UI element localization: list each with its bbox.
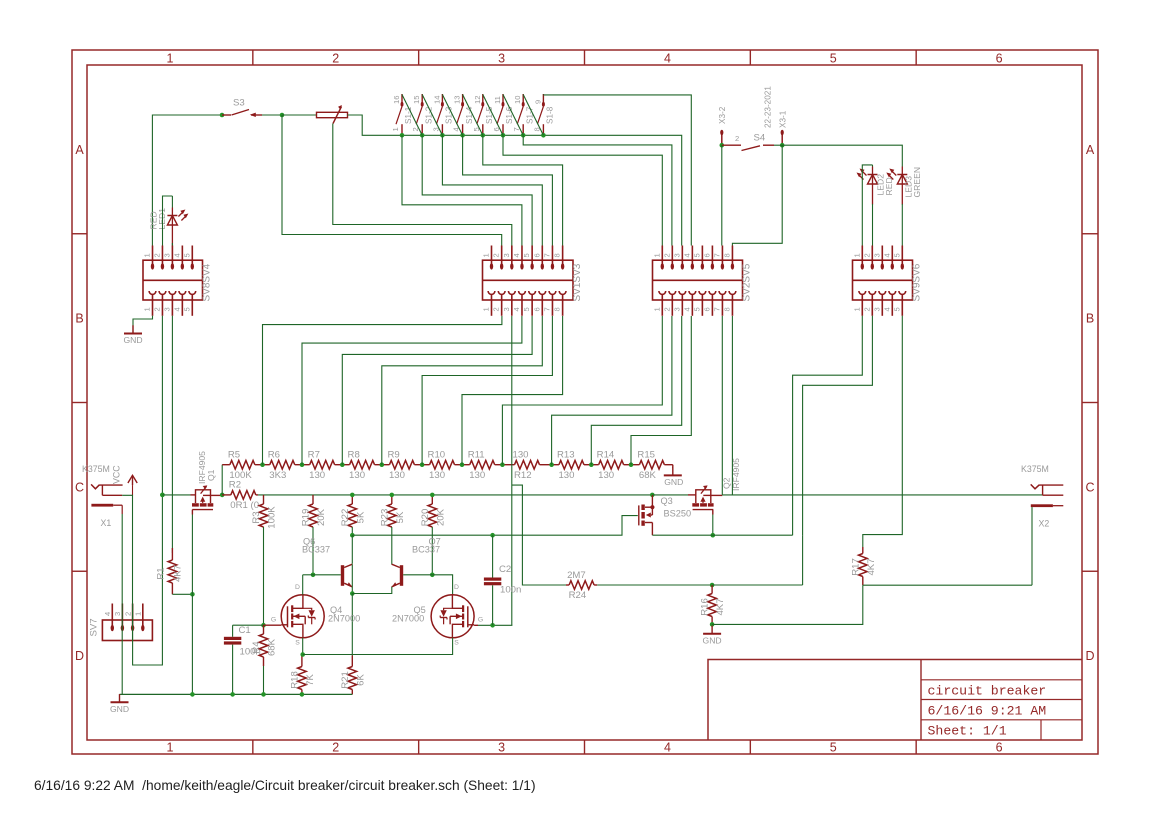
wire xyxy=(711,494,723,496)
wire xyxy=(901,204,903,246)
wire xyxy=(462,316,563,465)
svg-text:2: 2 xyxy=(735,134,739,143)
svg-text:1: 1 xyxy=(166,52,173,66)
wire xyxy=(793,316,863,535)
svg-text:R16: R16 xyxy=(700,598,711,616)
svg-text:8: 8 xyxy=(722,307,731,311)
svg-text:X2: X2 xyxy=(1039,519,1050,529)
svg-text:130: 130 xyxy=(349,470,365,481)
connector SV9 SV6 xyxy=(852,246,922,316)
wire xyxy=(591,316,681,465)
svg-text:GREEN: GREEN xyxy=(912,167,922,198)
wire xyxy=(712,585,863,624)
wire xyxy=(523,135,672,245)
resistor R22 xyxy=(340,495,367,527)
wire xyxy=(391,527,393,565)
svg-text:SV1SV3: SV1SV3 xyxy=(572,263,583,301)
svg-text:1: 1 xyxy=(391,127,400,131)
junction xyxy=(440,133,445,138)
svg-text:11: 11 xyxy=(493,96,502,104)
wire xyxy=(463,135,553,245)
svg-text:2: 2 xyxy=(492,307,501,311)
wire xyxy=(712,515,714,536)
svg-text:3: 3 xyxy=(113,612,122,616)
svg-text:1: 1 xyxy=(143,253,152,257)
wire xyxy=(712,584,803,586)
svg-text:4K7: 4K7 xyxy=(866,558,877,575)
svg-text:130: 130 xyxy=(429,470,445,481)
svg-text:S: S xyxy=(295,640,300,647)
svg-text:7: 7 xyxy=(712,307,721,311)
wire xyxy=(342,316,532,465)
svg-text:130: 130 xyxy=(469,470,485,481)
wire xyxy=(721,316,723,495)
wire xyxy=(688,494,696,496)
resistor R13 xyxy=(552,450,592,481)
transistor Q2 xyxy=(692,458,741,510)
transistor Q4 xyxy=(271,584,360,647)
svg-text:3K3: 3K3 xyxy=(269,470,286,481)
frame border xyxy=(72,50,1098,754)
wire xyxy=(597,584,712,586)
capacitor C1 xyxy=(224,625,261,658)
wire xyxy=(303,638,453,655)
wire xyxy=(352,516,638,536)
supply VCC xyxy=(112,465,138,496)
svg-text:R8: R8 xyxy=(348,450,360,461)
wire xyxy=(221,465,223,495)
svg-text:130: 130 xyxy=(309,470,325,481)
svg-text:6/16/16 9:22 AM /home/keith/e: 6/16/16 9:22 AM /home/keith/eagle/Circui… xyxy=(34,778,536,793)
svg-text:GND: GND xyxy=(664,477,683,487)
svg-text:S3: S3 xyxy=(233,98,245,109)
wire xyxy=(542,94,544,96)
junction xyxy=(430,493,435,498)
wire xyxy=(132,604,134,641)
wire xyxy=(282,115,502,246)
junction xyxy=(350,493,355,498)
wire xyxy=(782,145,902,166)
wire xyxy=(120,693,353,695)
LED LED1 xyxy=(149,208,189,246)
junction xyxy=(481,133,486,138)
svg-text:1: 1 xyxy=(482,253,491,257)
resistor R3 xyxy=(251,495,278,529)
junction xyxy=(190,592,195,597)
LED LED3 xyxy=(886,167,922,205)
svg-text:2: 2 xyxy=(123,612,132,616)
wire xyxy=(191,510,193,515)
wire xyxy=(523,95,543,136)
svg-text:3: 3 xyxy=(502,253,511,257)
wire xyxy=(133,316,153,334)
svg-text:R22: R22 xyxy=(340,509,351,527)
junction xyxy=(190,692,195,697)
wire xyxy=(264,624,282,626)
svg-text:4: 4 xyxy=(664,52,671,66)
switch S1-2 xyxy=(411,94,433,135)
svg-text:5: 5 xyxy=(522,253,531,257)
wire xyxy=(511,316,513,625)
connector SV8 SV4 xyxy=(143,246,213,316)
wire xyxy=(503,95,523,136)
junction xyxy=(549,462,554,467)
wire xyxy=(351,527,353,535)
wire xyxy=(348,115,403,135)
svg-text:4K7: 4K7 xyxy=(172,565,183,582)
svg-text:4: 4 xyxy=(882,307,891,311)
wire xyxy=(133,316,163,665)
svg-text:1: 1 xyxy=(652,253,661,257)
junction xyxy=(490,533,495,538)
wire xyxy=(263,666,265,694)
svg-text:R7: R7 xyxy=(308,450,320,461)
junction xyxy=(340,462,345,467)
svg-text:4: 4 xyxy=(172,253,181,257)
wire xyxy=(312,527,314,575)
svg-text:C: C xyxy=(75,480,84,494)
wire xyxy=(402,95,422,136)
svg-text:BS250: BS250 xyxy=(664,509,692,519)
wire xyxy=(302,575,304,595)
resistor R9 xyxy=(382,450,422,481)
wire xyxy=(211,494,223,496)
junction xyxy=(230,692,235,697)
svg-text:20K: 20K xyxy=(435,508,446,526)
svg-text:D: D xyxy=(454,584,459,591)
connector SV1 SV3 xyxy=(482,246,583,316)
svg-text:2: 2 xyxy=(152,253,161,257)
switch S1-1 xyxy=(391,94,413,135)
resistor R2 xyxy=(222,480,259,511)
wire xyxy=(313,574,341,576)
svg-text:2: 2 xyxy=(662,307,671,311)
svg-text:1: 1 xyxy=(852,307,861,311)
wire xyxy=(121,514,123,694)
connector pin X3-2 xyxy=(718,106,727,145)
svg-text:68K: 68K xyxy=(639,470,657,481)
junction xyxy=(160,493,165,498)
junction xyxy=(460,462,465,467)
svg-text:X3-1: X3-1 xyxy=(779,110,788,128)
svg-text:6: 6 xyxy=(532,253,541,257)
junction xyxy=(260,462,265,467)
junction xyxy=(501,133,506,138)
svg-text:16: 16 xyxy=(392,96,401,104)
resistor R5 xyxy=(222,450,262,481)
wire xyxy=(302,316,522,465)
svg-text:SV8SV4: SV8SV4 xyxy=(201,263,212,301)
wire xyxy=(512,485,566,585)
svg-text:100n: 100n xyxy=(500,585,521,596)
svg-text:C: C xyxy=(1085,480,1094,494)
wire xyxy=(232,625,234,637)
wire xyxy=(162,494,190,496)
wire xyxy=(802,535,804,585)
svg-text:R24: R24 xyxy=(569,590,587,601)
wire xyxy=(403,574,432,576)
switch S1-3 xyxy=(431,94,453,135)
resistor R6 xyxy=(263,450,303,481)
resistor R23 xyxy=(379,495,406,527)
LED LED2 xyxy=(857,167,895,205)
svg-text:12: 12 xyxy=(473,96,482,104)
junction xyxy=(710,622,715,627)
svg-text:5: 5 xyxy=(182,307,191,311)
svg-text:6/16/16 9:21 AM: 6/16/16 9:21 AM xyxy=(928,704,1047,719)
switch S1-8 xyxy=(532,94,554,135)
svg-text:5: 5 xyxy=(830,741,837,755)
svg-text:5: 5 xyxy=(692,253,701,257)
wire xyxy=(863,584,1032,586)
wire xyxy=(402,135,522,245)
svg-text:GND: GND xyxy=(110,704,129,714)
svg-text:S4: S4 xyxy=(754,133,766,144)
svg-text:15: 15 xyxy=(412,96,421,104)
wire xyxy=(502,316,662,465)
transistor Q7 xyxy=(391,536,441,588)
junction xyxy=(280,113,285,118)
svg-text:2M7: 2M7 xyxy=(567,570,586,581)
wire xyxy=(1031,507,1033,585)
svg-text:68K: 68K xyxy=(267,638,278,656)
wire xyxy=(282,114,317,116)
svg-text:BC337: BC337 xyxy=(302,545,330,555)
resistor R19 xyxy=(301,495,328,527)
junction xyxy=(629,462,634,467)
wire xyxy=(732,145,782,245)
svg-text:R9: R9 xyxy=(387,450,399,461)
svg-text:3: 3 xyxy=(872,307,881,311)
wire xyxy=(492,535,494,577)
svg-text:5: 5 xyxy=(892,253,901,257)
svg-text:3: 3 xyxy=(502,307,511,311)
wire xyxy=(263,316,502,465)
svg-text:3: 3 xyxy=(498,52,505,66)
svg-text:7: 7 xyxy=(542,307,551,311)
svg-text:S1-8: S1-8 xyxy=(546,106,555,124)
caption xyxy=(34,778,536,793)
svg-text:R12: R12 xyxy=(514,470,532,481)
svg-text:X1: X1 xyxy=(101,518,112,528)
wire xyxy=(402,135,682,245)
svg-text:22-23-2021: 22-23-2021 xyxy=(764,86,773,128)
wire xyxy=(442,135,542,245)
wire xyxy=(478,624,512,626)
wire xyxy=(351,594,353,656)
svg-text:4: 4 xyxy=(103,612,112,616)
svg-text:1: 1 xyxy=(652,307,661,311)
svg-text:4: 4 xyxy=(512,253,521,257)
wire xyxy=(503,135,662,245)
resistor R7 xyxy=(302,450,342,481)
wire xyxy=(303,574,313,576)
wire xyxy=(803,316,873,535)
wire xyxy=(721,145,723,245)
svg-text:Q3: Q3 xyxy=(661,496,673,506)
wire xyxy=(258,494,652,496)
svg-text:6: 6 xyxy=(996,741,1003,755)
connector X2 xyxy=(1021,464,1063,529)
svg-text:R15: R15 xyxy=(637,450,655,461)
wire xyxy=(152,115,222,246)
resistor R8 xyxy=(342,450,382,481)
wire xyxy=(351,535,353,564)
wire xyxy=(191,515,193,595)
svg-text:3: 3 xyxy=(498,741,505,755)
wire xyxy=(432,575,452,595)
svg-text:1: 1 xyxy=(143,307,152,311)
svg-text:R13: R13 xyxy=(557,450,575,461)
wire xyxy=(351,564,353,593)
svg-text:R21: R21 xyxy=(340,671,351,689)
svg-text:5K: 5K xyxy=(355,511,366,523)
svg-text:R5: R5 xyxy=(228,450,240,461)
junction xyxy=(261,623,266,628)
svg-text:SV9SV6: SV9SV6 xyxy=(911,263,922,301)
capacitor C2 xyxy=(484,564,521,596)
svg-text:B: B xyxy=(75,312,83,326)
resistor R20 xyxy=(420,495,447,527)
junction xyxy=(220,493,225,498)
wire xyxy=(171,196,173,208)
wire xyxy=(163,196,173,246)
svg-text:SV2SV5: SV2SV5 xyxy=(741,263,752,301)
svg-text:8: 8 xyxy=(553,307,562,311)
wire xyxy=(652,494,688,496)
svg-text:A: A xyxy=(1086,143,1095,157)
rheostat R? xyxy=(317,105,348,124)
wire xyxy=(722,494,1042,496)
junction xyxy=(521,133,526,138)
svg-text:5: 5 xyxy=(522,307,531,311)
junction xyxy=(390,493,395,498)
svg-text:3: 3 xyxy=(162,307,171,311)
wire xyxy=(422,316,552,465)
junction xyxy=(400,133,405,138)
svg-text:7: 7 xyxy=(712,253,721,257)
svg-text:6: 6 xyxy=(532,307,541,311)
svg-text:circuit breaker: circuit breaker xyxy=(928,684,1047,699)
svg-text:B: B xyxy=(1086,312,1094,326)
junction xyxy=(589,462,594,467)
svg-text:2: 2 xyxy=(862,307,871,311)
switch S1-6 xyxy=(492,94,514,135)
svg-text:2: 2 xyxy=(862,253,871,257)
title block xyxy=(708,660,1082,741)
svg-text:2N7000: 2N7000 xyxy=(328,614,360,624)
svg-text:1: 1 xyxy=(166,741,173,755)
svg-text:3: 3 xyxy=(672,307,681,311)
wire xyxy=(262,114,282,116)
wire xyxy=(422,95,442,136)
wire xyxy=(352,587,392,594)
svg-text:3: 3 xyxy=(672,253,681,257)
wire xyxy=(483,135,563,245)
wire xyxy=(191,494,196,496)
junction xyxy=(500,462,505,467)
svg-text:G: G xyxy=(478,617,483,624)
svg-text:5: 5 xyxy=(892,307,901,311)
svg-text:6: 6 xyxy=(702,253,711,257)
svg-text:9: 9 xyxy=(533,100,542,104)
switch S1-5 xyxy=(472,94,494,135)
svg-text:S: S xyxy=(454,640,459,647)
svg-text:100K: 100K xyxy=(267,506,278,529)
svg-text:3: 3 xyxy=(872,253,881,257)
svg-text:D: D xyxy=(75,649,84,663)
junction xyxy=(430,573,435,578)
svg-text:R2: R2 xyxy=(229,480,241,491)
wire xyxy=(712,510,714,515)
svg-text:2: 2 xyxy=(152,307,161,311)
wire xyxy=(172,593,192,595)
wire xyxy=(171,243,173,246)
svg-text:6: 6 xyxy=(702,307,711,311)
svg-text:130: 130 xyxy=(598,470,614,481)
svg-text:4: 4 xyxy=(512,307,521,311)
resistor R12 xyxy=(502,450,551,481)
resistor R21 xyxy=(340,656,367,695)
junction xyxy=(650,493,655,498)
transistor Q3 xyxy=(639,495,691,535)
svg-text:13: 13 xyxy=(453,96,462,104)
switch S1-4 xyxy=(452,94,474,135)
junction xyxy=(300,692,305,697)
wire xyxy=(191,594,193,694)
junction xyxy=(261,692,266,697)
connector SV7 xyxy=(89,604,153,641)
svg-text:R1: R1 xyxy=(155,567,166,579)
wire xyxy=(382,316,543,465)
svg-text:4: 4 xyxy=(682,253,691,257)
junction xyxy=(350,591,355,596)
svg-text:4: 4 xyxy=(682,307,691,311)
svg-text:2: 2 xyxy=(332,52,339,66)
svg-text:10: 10 xyxy=(513,96,522,104)
svg-text:R10: R10 xyxy=(428,450,446,461)
svg-text:GND: GND xyxy=(703,635,722,645)
svg-text:7K: 7K xyxy=(305,674,316,686)
wire xyxy=(863,316,903,547)
resistor R4 xyxy=(251,625,278,666)
junction xyxy=(711,533,716,538)
svg-text:G: G xyxy=(271,617,276,624)
junction xyxy=(460,133,465,138)
wire xyxy=(652,534,712,536)
svg-text:1: 1 xyxy=(482,307,491,311)
junction xyxy=(220,113,225,118)
resistor R1 xyxy=(155,548,183,594)
resistor R24 xyxy=(566,570,597,601)
switch S1-7 xyxy=(512,94,534,135)
svg-text:K375M: K375M xyxy=(82,464,110,474)
junction xyxy=(300,462,305,467)
svg-text:8: 8 xyxy=(722,253,731,257)
svg-text:SV7: SV7 xyxy=(89,618,100,636)
wire xyxy=(431,527,433,575)
junction xyxy=(420,133,425,138)
wire xyxy=(333,124,512,246)
svg-text:Q1: Q1 xyxy=(206,469,216,481)
svg-text:VCC: VCC xyxy=(112,465,122,484)
svg-text:RED: RED xyxy=(884,177,894,195)
svg-text:GND: GND xyxy=(123,335,142,345)
wire xyxy=(774,144,782,146)
junction xyxy=(710,583,715,588)
svg-text:R11: R11 xyxy=(468,450,485,461)
svg-text:R6: R6 xyxy=(268,450,280,461)
